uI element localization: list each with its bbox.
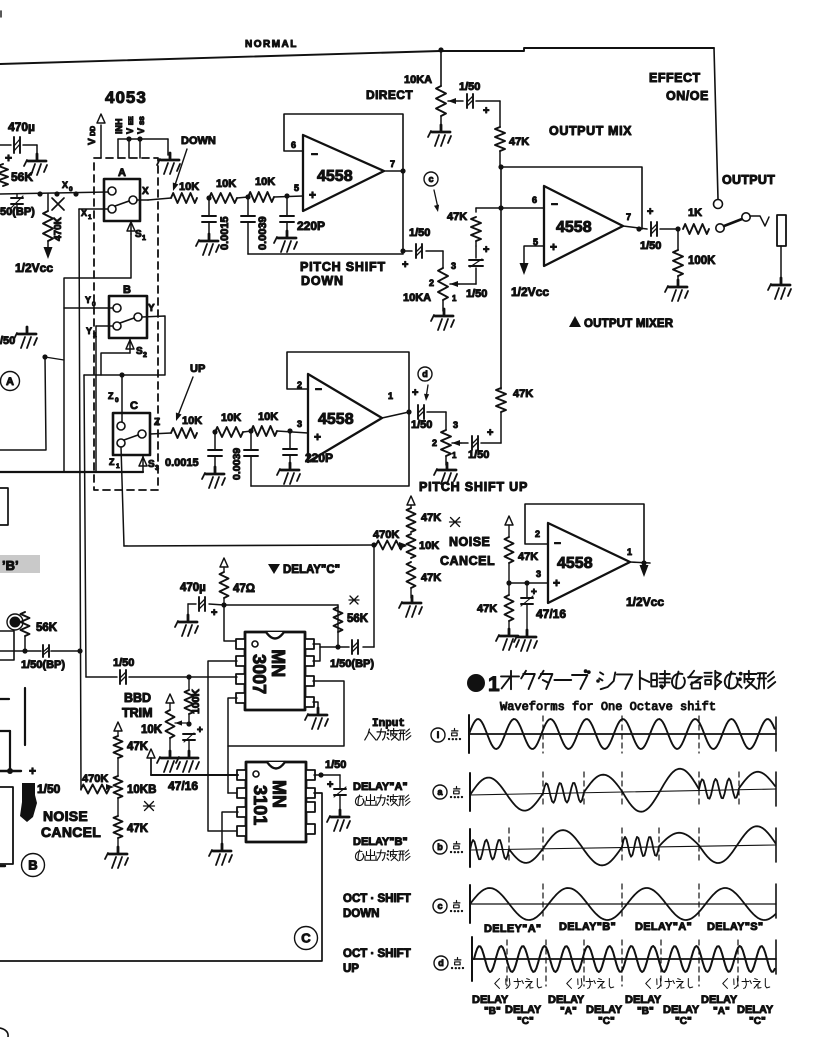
resistor 47K up sum <box>496 388 533 443</box>
svg-text:DD: DD <box>90 126 97 136</box>
node d circled <box>418 367 432 401</box>
wire effect switch drop <box>714 48 718 199</box>
ground 100K <box>665 280 688 301</box>
svg-text:10KB: 10KB <box>127 784 156 796</box>
svg-text:DELAY: DELAY <box>472 994 509 1006</box>
svg-text:BBD: BBD <box>124 691 151 705</box>
svg-text:1K: 1K <box>688 207 702 219</box>
svg-text:4558: 4558 <box>557 555 593 572</box>
ground 470u delay c <box>175 615 198 636</box>
svg-text:1/50: 1/50 <box>325 759 346 771</box>
svg-text:DELAY: DELAY <box>548 994 585 1006</box>
capacitor 1/50 noise left smudged <box>0 764 61 822</box>
ground 0.0015 up <box>202 467 225 488</box>
resistor 1K output <box>683 207 709 234</box>
waveform row5 delay captions staggered <box>472 994 774 1027</box>
svg-text:7: 7 <box>626 212 631 222</box>
svg-text:1: 1 <box>93 332 97 339</box>
capacitor 470u delay c <box>180 582 224 619</box>
capacitor 220P down <box>280 196 325 234</box>
wire left box fragment <box>0 631 14 660</box>
svg-text:DELAY"C": DELAY"C" <box>283 564 340 576</box>
svg-text:47K: 47K <box>477 603 497 615</box>
op-amp U3 4558 pitch shift up <box>297 374 393 462</box>
svg-text:C: C <box>301 931 311 946</box>
waveform row3 dividers <box>509 828 699 864</box>
capacitor 1/50 up output <box>411 387 446 431</box>
svg-text:S: S <box>148 459 155 470</box>
svg-text:+: + <box>327 779 333 791</box>
svg-text:UP: UP <box>343 963 359 975</box>
svg-text:10K: 10K <box>419 540 439 552</box>
waveform row5 dividers <box>507 940 738 986</box>
wire node to MN3007 pin1 <box>224 605 237 641</box>
4053 dashed boundary <box>94 158 158 490</box>
svg-text:3: 3 <box>453 420 458 430</box>
svg-text:c: c <box>428 174 433 184</box>
svg-text:"C": "C" <box>598 1016 615 1027</box>
svg-text:d: d <box>422 369 428 379</box>
wire mix node to pin6 <box>501 207 544 209</box>
svg-text:c: c <box>437 901 442 911</box>
node down chain 3 <box>284 193 289 198</box>
wire Y output drop <box>84 316 165 378</box>
power VDD arrow <box>87 114 105 158</box>
svg-text:OUTPUT MIXER: OUTPUT MIXER <box>584 318 674 330</box>
svg-text:2: 2 <box>432 438 437 448</box>
svg-text:"C": "C" <box>675 1016 692 1027</box>
ground 47K nc shunt <box>496 629 519 650</box>
svg-text:1: 1 <box>452 294 457 303</box>
node B circled <box>22 854 45 877</box>
capacitor /50 left edge <box>0 327 37 348</box>
svg-text:NORMAL: NORMAL <box>245 39 298 50</box>
capacitor 0.0039 up <box>231 431 258 486</box>
wire X0 input <box>0 180 108 197</box>
svg-text:NOISE: NOISE <box>43 808 88 824</box>
svg-text:Z: Z <box>108 391 114 401</box>
svg-text:EFFECT: EFFECT <box>649 71 701 85</box>
label EFFECT ON/OE <box>649 71 709 103</box>
svg-text:10KA: 10KA <box>404 74 432 86</box>
capacitor 0.0015 up <box>165 432 222 470</box>
waveform row3 axis <box>470 828 776 867</box>
wire feedback loop down op-amp <box>284 114 406 251</box>
svg-text:OUTPUT: OUTPUT <box>722 173 775 187</box>
svg-text:+: + <box>412 387 418 399</box>
svg-text:10K: 10K <box>179 181 199 193</box>
svg-text:+: + <box>402 259 408 271</box>
resistor 470K to half Vcc <box>15 194 64 275</box>
ground noise trimmer <box>399 596 422 617</box>
svg-text:10KA: 10KA <box>403 292 431 304</box>
ground bbd trimmer <box>157 751 180 772</box>
wire mn3007 pin4R ground <box>313 702 318 710</box>
capacitor 470u input top-left <box>0 120 37 165</box>
node down chain 1 <box>206 195 211 200</box>
op-amp U4 4558 noise cancel <box>535 523 632 603</box>
svg-text:DOWN: DOWN <box>181 135 216 147</box>
node B' label smudge <box>0 555 40 573</box>
wire Y0 input <box>64 295 113 308</box>
svg-text:1/50: 1/50 <box>409 227 430 239</box>
label S1 <box>127 221 146 242</box>
waveform row3 delayB wave <box>470 826 776 865</box>
svg-text:−: − <box>315 382 322 396</box>
capacitor 0.0039 down <box>241 197 269 254</box>
svg-text:X: X <box>81 208 87 218</box>
svg-text:47/16: 47/16 <box>168 779 198 793</box>
svg-text:1/50: 1/50 <box>37 782 61 796</box>
svg-text:DELAY: DELAY <box>701 994 738 1006</box>
ground output jack <box>768 278 791 299</box>
svg-text:UP: UP <box>190 363 205 375</box>
svg-text:47K: 47K <box>509 136 529 148</box>
ground 1/50 mn3101 <box>327 810 350 831</box>
svg-text:1/2Vcc: 1/2Vcc <box>626 595 664 609</box>
wire nc output <box>626 562 664 609</box>
wire clock line to mn3101 pin2 <box>227 746 229 793</box>
wire delay c drop to BP cap <box>373 545 375 647</box>
resistor 47K down sum <box>447 208 501 246</box>
svg-text:47K: 47K <box>447 211 467 223</box>
svg-text:4053: 4053 <box>105 88 147 107</box>
svg-text:1/50: 1/50 <box>459 81 480 93</box>
op-amp U2 4558 output mixer <box>532 186 631 266</box>
wire nc feedback loop <box>525 504 647 566</box>
node mn3101 output <box>314 759 346 778</box>
resistor 100K bbd bias <box>185 677 203 727</box>
svg-text:1/50: 1/50 <box>640 240 661 252</box>
resistor 470K delay c to nc wiper <box>373 529 407 550</box>
svg-text:+: + <box>309 188 316 202</box>
svg-text:+: + <box>647 206 653 218</box>
ground below direct pot <box>428 125 451 146</box>
label S3 <box>139 455 159 472</box>
svg-text:4558: 4558 <box>317 168 353 185</box>
svg-text:3: 3 <box>536 569 541 579</box>
node output divider <box>675 226 680 231</box>
ground below up mix pot <box>434 463 457 484</box>
label UP with arrow <box>176 363 205 421</box>
svg-text:1: 1 <box>627 547 632 557</box>
svg-text:PITCH SHIFT: PITCH SHIFT <box>300 260 386 274</box>
switch C of 4053 <box>113 400 160 455</box>
svg-text:4558: 4558 <box>318 411 354 428</box>
label OUTPUT MIXER <box>569 316 674 330</box>
waveform row4 axis <box>470 884 776 923</box>
svg-text:1: 1 <box>88 214 92 221</box>
resistor 47K nc shunt <box>477 583 514 631</box>
svg-text:DELEY"A": DELEY"A" <box>484 923 541 935</box>
svg-text:OUTPUT MIX: OUTPUT MIX <box>549 124 632 138</box>
potentiometer VR up mix <box>432 412 461 465</box>
svg-text:3: 3 <box>297 419 302 429</box>
pins INH VEE VSS <box>114 116 168 158</box>
ground 0.0015 down <box>196 234 219 255</box>
capacitor bbd bias <box>183 725 203 753</box>
svg-text:"B": "B" <box>484 1006 501 1017</box>
label S2 <box>126 338 147 359</box>
svg-text:S: S <box>136 346 143 357</box>
resistor 10K third up chain <box>251 411 308 436</box>
svg-text:/50: /50 <box>0 335 15 347</box>
waveform row3 delayB labels <box>353 836 463 861</box>
svg-text:+: + <box>483 244 489 256</box>
resistor 10K second up chain <box>215 412 251 437</box>
svg-text:S: S <box>135 229 142 240</box>
wire left box fragment upper <box>0 488 8 525</box>
label DOWN with arrow <box>173 135 216 191</box>
svg-text:Y: Y <box>148 303 155 314</box>
capacitor 0.0015 down <box>202 198 231 250</box>
ground 4053 supply <box>157 153 180 174</box>
capacitor 1/50BP left lower <box>0 645 80 671</box>
svg-text:+: + <box>5 151 12 165</box>
ground bbd bias cap <box>176 751 199 772</box>
svg-text:470K: 470K <box>373 529 399 541</box>
svg-text:3: 3 <box>451 261 456 271</box>
svg-text:b: b <box>437 842 443 852</box>
label NOISE CANCEL <box>440 535 495 568</box>
svg-text:1/50(BP): 1/50(BP) <box>21 659 65 671</box>
waveform row1 dividers <box>543 716 699 753</box>
svg-text:47K: 47K <box>518 551 538 563</box>
capacitor 1/50 mn3101 <box>327 775 346 812</box>
waveform row1 input sine <box>469 719 775 749</box>
waveform row4 delay captions <box>484 921 763 935</box>
wire X1 vertical long <box>77 209 82 790</box>
svg-text:470K: 470K <box>53 216 64 241</box>
resistor 470K noise cancel left <box>81 773 109 794</box>
wire 47/16 drive <box>151 758 238 793</box>
wire Y1 input <box>86 326 113 472</box>
label PITCH SHIFT DOWN <box>300 259 408 288</box>
svg-text:47K: 47K <box>421 572 441 584</box>
svg-text:MN: MN <box>268 649 288 677</box>
svg-text:+: + <box>553 576 560 590</box>
wire mixer pin5 to half Vcc <box>511 246 549 299</box>
waveform row2 delayA wave <box>470 769 775 812</box>
waveform row5 axis <box>472 937 776 981</box>
svg-text:10K: 10K <box>255 176 275 188</box>
svg-text:47K: 47K <box>127 741 149 753</box>
svg-text:DELAY: DELAY <box>586 1004 623 1016</box>
switch output jack <box>716 213 786 280</box>
resistor 10K first down chain <box>148 181 199 203</box>
op-amp U1 4558 pitch shift down <box>291 135 395 211</box>
svg-text:X: X <box>142 186 149 197</box>
waveform row2 dividers <box>543 772 739 808</box>
capacitor 1/50 down output <box>400 227 443 258</box>
svg-text:DELAY: DELAY <box>663 1004 700 1016</box>
svg-text:Input: Input <box>372 718 405 730</box>
svg-text:2: 2 <box>143 352 147 359</box>
ground below down mix pot <box>431 309 454 330</box>
svg-text:10K: 10K <box>216 178 236 190</box>
svg-text:0.0015: 0.0015 <box>165 457 199 469</box>
wire mn3007 outputs join <box>313 644 338 661</box>
svg-text:+: + <box>197 725 203 736</box>
svg-text:DELAY"B": DELAY"B" <box>559 921 616 933</box>
capacitor 1/50BP delay c <box>330 640 374 670</box>
svg-text:1/50(BP): 1/50(BP) <box>330 658 374 670</box>
stray mark top-left <box>0 11 2 17</box>
svg-text:5: 5 <box>294 183 299 193</box>
svg-text:V: V <box>125 128 135 134</box>
svg-text:−: − <box>554 536 561 550</box>
wire Z1 stub <box>109 457 120 470</box>
svg-text:−: − <box>311 147 318 161</box>
wire delay C bus <box>124 542 377 547</box>
svg-text:50(BP): 50(BP) <box>0 206 35 218</box>
svg-text:"A": "A" <box>560 1006 577 1017</box>
svg-text:OCT · SHIFT: OCT · SHIFT <box>343 948 411 960</box>
svg-text:1/50: 1/50 <box>466 288 487 300</box>
svg-text:0.0039: 0.0039 <box>257 216 269 250</box>
svg-text:DOWN: DOWN <box>301 274 344 288</box>
svg-text:470µ: 470µ <box>8 120 35 134</box>
stray arc bottom left <box>0 1028 8 1037</box>
wire down op-amp output <box>384 170 403 172</box>
svg-text:6: 6 <box>532 195 537 205</box>
waveform row2 delayA labels <box>353 781 463 806</box>
switch B of 4053 <box>109 284 155 338</box>
svg-text:1/50: 1/50 <box>468 449 489 461</box>
capacitor 50BP on input wire <box>0 194 35 218</box>
resistor 10K second down chain <box>209 178 248 203</box>
ground mn3007 <box>305 708 328 729</box>
svg-text:Waveforms for One Octave shift: Waveforms for One Octave shift <box>500 700 716 714</box>
label BBD TRIM <box>122 691 153 720</box>
IC MN3101 clock <box>246 762 306 842</box>
capacitor 1/50 direct <box>455 81 500 117</box>
svg-text:DELAY"A": DELAY"A" <box>353 781 408 793</box>
waveform row5 fast sine <box>474 946 775 972</box>
svg-text:0: 0 <box>115 397 119 404</box>
waveform row input labels <box>365 718 461 742</box>
svg-text:B: B <box>123 284 131 296</box>
svg-text:6: 6 <box>291 140 296 150</box>
resistor 10K third down chain <box>248 176 303 202</box>
svg-text:10K: 10K <box>221 412 241 424</box>
svg-text:1/2Vcc: 1/2Vcc <box>511 285 549 299</box>
wire feedback loop up op-amp <box>251 352 412 486</box>
wire A feed vertical long <box>84 375 86 677</box>
trimmer stack 47K 10K 47K noise cancel right <box>399 496 461 598</box>
waveform chart title japanese <box>467 669 775 696</box>
svg-text:B: B <box>28 858 37 873</box>
svg-text:DELAY: DELAY <box>737 1004 774 1016</box>
svg-text:0.0039: 0.0039 <box>231 448 243 480</box>
wire Z0 input <box>108 375 122 422</box>
ground 220P up <box>277 463 300 484</box>
wire X1 input <box>79 208 108 221</box>
svg-text:PITCH SHIFT UP: PITCH SHIFT UP <box>419 480 528 494</box>
svg-text:+: + <box>483 105 489 117</box>
waveform row4 oct shift down labels <box>343 893 463 920</box>
svg-text:EE: EE <box>128 116 135 125</box>
node up chain 1 <box>212 429 217 434</box>
capacitor 1/50 up mix wiper <box>461 427 501 461</box>
svg-text:1/2Vcc: 1/2Vcc <box>15 261 53 275</box>
potentiometer VR down mix 10KA <box>403 251 459 311</box>
svg-text:DELAY: DELAY <box>625 994 662 1006</box>
wire junction left <box>0 354 64 450</box>
svg-text:Z: Z <box>109 457 115 467</box>
svg-text:CANCEL: CANCEL <box>41 824 101 840</box>
wire delay C pickoff from switch C <box>121 447 124 546</box>
svg-text:3007: 3007 <box>249 654 269 694</box>
svg-text:Y: Y <box>85 295 91 305</box>
svg-text:3: 3 <box>155 465 159 472</box>
node nc plus input <box>506 580 548 585</box>
svg-text:47Ω: 47Ω <box>233 583 255 595</box>
svg-text:d: d <box>438 958 444 968</box>
svg-text:+: + <box>211 607 217 619</box>
svg-text:SS: SS <box>139 116 146 125</box>
ground 47/16 nc <box>514 630 537 651</box>
svg-text:A: A <box>6 376 14 388</box>
svg-text:C: C <box>130 400 138 412</box>
wire oct shift up output long <box>0 793 322 961</box>
wire X output to 10K chain <box>137 199 148 201</box>
waveform row4 dividers <box>543 884 699 920</box>
svg-text:1: 1 <box>116 463 120 470</box>
svg-text:ON/OE: ON/OE <box>666 89 709 103</box>
svg-text:10K: 10K <box>182 415 202 427</box>
stray mark <box>349 596 359 604</box>
svg-text:220P: 220P <box>297 219 325 233</box>
svg-text:47/16: 47/16 <box>536 607 566 621</box>
svg-text:+: + <box>29 764 36 778</box>
wire up op-amp output <box>382 412 409 418</box>
svg-text:10K: 10K <box>141 724 163 736</box>
svg-text:4558: 4558 <box>556 219 592 236</box>
resistor 56K left lower <box>7 612 58 651</box>
node down chain 2 <box>245 194 250 199</box>
svg-text:DOWN: DOWN <box>343 908 379 920</box>
svg-text:DIRECT: DIRECT <box>366 88 413 102</box>
svg-text:47K: 47K <box>421 512 441 524</box>
node C circled <box>295 927 318 950</box>
capacitor 220P up <box>283 431 333 466</box>
svg-text:56K: 56K <box>36 622 58 634</box>
svg-text:DELAY"A": DELAY"A" <box>635 921 692 933</box>
label DELAY C <box>268 564 340 576</box>
svg-text:470K: 470K <box>82 773 108 785</box>
svg-text:V: V <box>136 128 146 134</box>
svg-text:INH: INH <box>114 119 124 135</box>
svg-text:DELAY"S": DELAY"S" <box>707 921 763 933</box>
svg-text:V: V <box>87 138 98 145</box>
svg-text:0: 0 <box>92 301 96 308</box>
svg-text:2: 2 <box>429 278 434 288</box>
wire mixer feedback top <box>501 167 642 229</box>
svg-text:CANCEL: CANCEL <box>440 554 495 568</box>
svg-text:Y: Y <box>86 326 92 336</box>
capacitor 47/16 nc <box>521 583 566 632</box>
waveform row4 slow sine <box>470 888 776 920</box>
junction cross mark on X0 wire <box>52 198 64 210</box>
label NOISE CANCEL left <box>41 808 101 840</box>
svg-text:"C": "C" <box>517 1016 534 1027</box>
wire S1 control drop <box>64 234 131 472</box>
wire 47ohm node to 56K <box>224 604 338 606</box>
ground mn3101 left <box>209 844 232 865</box>
switch A of 4053 <box>104 167 149 221</box>
wire mn3101 pin3L ground <box>222 812 238 846</box>
